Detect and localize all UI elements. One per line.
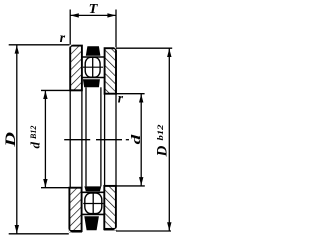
- D dimension extension line top: [9, 44, 70, 46]
- shaft washer bottom section: [104, 186, 116, 229]
- D_b12 dimension line: [168, 48, 170, 230]
- T arrow left: [70, 13, 78, 17]
- cage inner tab top (black band): [83, 79, 100, 87]
- T arrow right: [107, 13, 115, 17]
- T dimension extension line left: [69, 10, 71, 46]
- housing washer top section: [70, 46, 82, 91]
- ball pocket bottom line: [82, 77, 105, 79]
- shaft washer bottom-right chamfer: [114, 227, 117, 230]
- svg-text:B12: B12: [29, 126, 38, 140]
- D_b12 arrow top: [167, 49, 171, 57]
- axis center mark left: [64, 139, 90, 141]
- svg-text:D: D: [155, 146, 171, 158]
- label D b12: [155, 124, 171, 158]
- housing washer inner face line: [81, 90, 83, 187]
- d_b12 extension line top (left washer bore edge): [41, 89, 82, 91]
- svg-text:r: r: [60, 31, 66, 46]
- shaft washer top-right chamfer: [114, 47, 117, 50]
- housing washer bottom-left chamfer: [69, 229, 73, 233]
- cage outer tab top (black trapezoid): [86, 46, 101, 55]
- label d B12: [28, 126, 43, 149]
- d arrow top: [139, 94, 143, 102]
- d dimension extension line bottom: [105, 185, 145, 187]
- ball pocket top line: [82, 56, 105, 58]
- d_b12 arrow bottom: [43, 179, 47, 187]
- shaft washer outer face line (through bore): [115, 94, 117, 186]
- ball top: [83, 57, 103, 78]
- ball pocket bottom-section bottom line: [82, 213, 105, 215]
- d_b12 extension line bottom: [41, 187, 82, 189]
- svg-text:r: r: [118, 90, 124, 105]
- svg-text:b12: b12: [155, 124, 165, 141]
- svg-text:d: d: [28, 142, 43, 149]
- D arrow top: [15, 45, 19, 53]
- d_b12 dimension line (left inner): [44, 90, 46, 187]
- cage outer tab bottom (black trapezoid): [84, 216, 99, 230]
- cage left edge line: [85, 87, 87, 186]
- D_b12 dimension extension line bottom: [116, 230, 171, 232]
- cage right edge line: [100, 87, 102, 186]
- D arrow bottom: [15, 225, 19, 233]
- D dimension extension line bottom: [9, 233, 69, 235]
- axis center mark right: [96, 139, 122, 141]
- ball bottom: [83, 192, 103, 214]
- D_b12 arrow bottom: [167, 222, 171, 230]
- D dimension line: [16, 45, 18, 234]
- housing washer outer face line (through bore): [69, 90, 71, 187]
- shaft washer inner face line: [104, 94, 106, 186]
- svg-text:D: D: [3, 132, 19, 148]
- svg-text:d: d: [128, 134, 143, 144]
- D_b12 dimension extension line top: [116, 47, 172, 49]
- T dimension extension line right: [115, 10, 117, 49]
- T dimension line: [70, 14, 116, 16]
- d dimension extension line top (shaft washer bore edge): [105, 93, 145, 95]
- svg-text:T: T: [89, 2, 99, 17]
- shaft washer top section: [105, 48, 116, 93]
- cage inner tab bottom (black band): [84, 186, 101, 191]
- d arrow bottom: [139, 177, 143, 185]
- d_b12 arrow top: [43, 91, 47, 99]
- ball pocket bottom-section top line: [82, 191, 105, 193]
- housing washer bottom section: [69, 188, 82, 232]
- d dimension line (right inner): [140, 94, 142, 186]
- axis center dash: [126, 139, 129, 141]
- housing washer top-left chamfer: [69, 45, 73, 49]
